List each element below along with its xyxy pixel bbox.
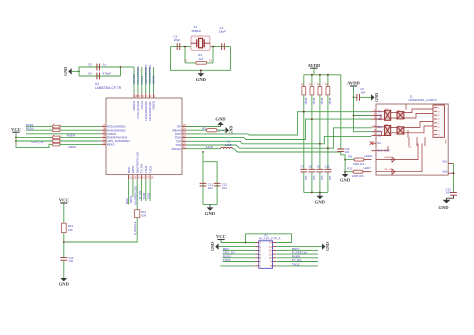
- svg-text:TXD0: TXD0: [223, 258, 231, 262]
- ground P1 right GND: [322, 243, 325, 249]
- svg-text:C5: C5: [88, 63, 92, 67]
- wire U1 top pin LED1/REGOFF: [145, 67, 147, 94]
- wire avdd2 to TCT: [354, 97, 372, 131]
- ground C6 GND: [371, 94, 374, 100]
- wire U1 top pin VDDIO: [153, 67, 155, 94]
- svg-text:TX_EN: TX_EN: [138, 191, 142, 200]
- pin stub U1 left RXD0/MODE0: [102, 129, 107, 131]
- svg-text:MDC: MDC: [125, 198, 129, 204]
- resistor R2: [302, 87, 306, 95]
- svg-text:25MHz: 25MHz: [192, 29, 202, 33]
- pin stub U1 bottom NINT/REFCLKO: [136, 175, 138, 179]
- capacitor C6: [357, 94, 360, 101]
- svg-text:GND: GND: [210, 242, 215, 251]
- wire P1 left CRS_DV: [223, 253, 256, 255]
- junction avdd rail mid3: [327, 74, 329, 76]
- wire ledy to J1: [363, 171, 372, 173]
- wire to VDDCR: [121, 66, 135, 68]
- pin stub P1 right 10: [273, 257, 277, 259]
- wire P1 right gnd: [276, 246, 322, 248]
- wire VCC stem: [16, 132, 53, 147]
- svg-text:R3: R3: [309, 82, 313, 86]
- svg-text:W_2.54_2*7P_A: W_2.54_2*7P_A: [259, 237, 280, 241]
- wire P1 right MDIO: [276, 249, 318, 251]
- svg-text:TXD1: TXD1: [148, 165, 152, 173]
- pin stub U1 top LED1/REGOFF: [145, 94, 147, 98]
- pin stub U1 right RXP: [182, 133, 187, 135]
- resistor R8: [53, 136, 60, 139]
- capacitor C11: [200, 183, 207, 186]
- connector block 8P8C: [433, 105, 445, 137]
- pin stub U1 bottom MDC: [128, 175, 130, 179]
- wire R13 to rc: [64, 218, 137, 242]
- wire 49.9R leg 1 lower: [303, 95, 305, 169]
- wire VDDIO: [26, 133, 102, 135]
- pin stub J1 RCT: [372, 131, 377, 133]
- capacitor C4: [97, 73, 100, 80]
- ground shield GND: [447, 196, 454, 200]
- svg-text:A1V8: A1V8: [206, 145, 214, 149]
- wire U1 top pin LED2/NINTSEL: [149, 67, 151, 94]
- ground EP GND: [220, 125, 222, 127]
- svg-text:49.9R: 49.9R: [312, 98, 316, 105]
- svg-text:10R: 10R: [141, 214, 146, 218]
- pin stub U1 top XTAL1/CLKIN: [137, 94, 139, 98]
- svg-text:NC: NC: [377, 141, 381, 145]
- wire cap1 to bus: [311, 172, 313, 192]
- pin stub J1 RD+: [372, 126, 377, 128]
- svg-text:R5: R5: [325, 82, 329, 86]
- wire crystal main net X1/X2 rail: [171, 46, 231, 48]
- wire gnd stem: [72, 70, 79, 72]
- pin stub U1 bottom TXD0: [145, 175, 147, 179]
- junction c5 top right: [120, 66, 122, 68]
- svg-text:VDD2A: VDD2A: [171, 147, 181, 151]
- wire p1 gnd left: [219, 246, 256, 248]
- wire c5/c4 loop: [79, 66, 121, 68]
- svg-text:104: 104: [222, 186, 227, 190]
- pin stub U1 top VDDCR: [133, 94, 135, 98]
- wire MDC down: [128, 179, 130, 205]
- svg-text:C4: C4: [88, 71, 92, 75]
- svg-text:TX_EN: TX_EN: [292, 258, 302, 262]
- svg-text:GND: GND: [59, 282, 70, 287]
- wire r14 to c14: [63, 233, 65, 258]
- svg-text:49.9R: 49.9R: [320, 98, 324, 105]
- wire xfmr internals: [376, 105, 433, 175]
- svg-text:GND: GND: [205, 211, 216, 216]
- wire RXER to IC: [60, 136, 102, 138]
- wire 49.9R leg 2 upper: [311, 75, 313, 87]
- junction crystal right: [212, 46, 214, 48]
- svg-text:AVDD: AVDD: [347, 81, 360, 86]
- resistor R12 ledy: [345, 171, 353, 173]
- wire P1 right TXD1: [276, 265, 318, 267]
- svg-text:GND: GND: [374, 93, 379, 102]
- pin stub U1 right EP: [182, 126, 187, 128]
- svg-text:49.9R: 49.9R: [328, 98, 332, 105]
- svg-text:TXD0: TXD0: [142, 192, 146, 199]
- pin stub J1 TCT: [372, 115, 377, 117]
- wire RXP: [187, 112, 372, 135]
- wire 49.9R leg 4 lower: [327, 95, 329, 169]
- pin stub P1 right 11: [273, 253, 277, 255]
- svg-text:R11: R11: [348, 154, 353, 158]
- transformer RX secondary: [397, 127, 404, 134]
- wire led column junction: [344, 159, 346, 161]
- svg-text:NRST: NRST: [129, 195, 133, 203]
- wire 49.9R leg 2 lower: [311, 95, 313, 169]
- pin stub U1 top LED2/NINTSEL: [149, 94, 151, 98]
- svg-text:104: 104: [360, 90, 365, 94]
- svg-text:C8: C8: [309, 165, 313, 169]
- junction leg4: [327, 147, 329, 149]
- svg-text:MDIO: MDIO: [107, 143, 115, 147]
- wire U1 top pin VDDCR: [133, 67, 135, 94]
- pin stub U1 left VDDIO: [102, 133, 107, 135]
- wire EP to gnd: [187, 126, 221, 128]
- svg-text:220R ±1%: 220R ±1%: [352, 175, 364, 178]
- wire c11c12 bus: [203, 204, 217, 206]
- wire U1 top pin XTAL1/CLKIN: [137, 67, 139, 94]
- power VCC reset: [60, 202, 67, 204]
- svg-text:C7: C7: [301, 165, 305, 169]
- svg-text:VCC: VCC: [59, 198, 69, 203]
- resistor R9: [207, 129, 218, 132]
- wire TCT branch: [354, 115, 372, 117]
- svg-text:CRS_DV: CRS_DV: [31, 140, 43, 144]
- wire RXER from VCC: [16, 136, 53, 138]
- junction vcc row4: [15, 137, 17, 139]
- capacitor C5: [97, 64, 100, 71]
- pin stub P1 left 6: [255, 261, 259, 263]
- svg-text:R9: R9: [202, 126, 206, 130]
- wire cap0 to bus: [303, 172, 305, 192]
- resistor R5: [326, 87, 330, 95]
- pin stub U1 right TXN: [182, 144, 187, 146]
- junction led2: [344, 171, 346, 173]
- svg-text:470pF: 470pF: [103, 71, 112, 75]
- transformer TX primary: [384, 110, 390, 120]
- junction leg2: [311, 118, 313, 120]
- resistor R10: [53, 140, 60, 143]
- pin J1 SH1: [448, 163, 453, 165]
- capacitor C7: [300, 169, 307, 172]
- capacitor C15: [337, 149, 344, 152]
- wire TXEN down: [141, 179, 143, 201]
- resistor R14: [61, 223, 66, 232]
- wire 49.9R leg 3 upper: [319, 75, 321, 87]
- resistor R1: [185, 62, 213, 64]
- wire P1 right R_REFCLK: [276, 253, 318, 255]
- pin stub U1 bottom NRST: [132, 175, 134, 179]
- svg-text:1u: 1u: [103, 63, 107, 67]
- svg-text:GND: GND: [229, 126, 234, 135]
- svg-text:C10: C10: [325, 165, 330, 169]
- wire 49.9R leg 3 lower: [319, 95, 321, 169]
- pin stub P1 right 12: [273, 249, 277, 251]
- transformer TX secondary: [397, 112, 404, 119]
- pin stub U1 left MDIO: [102, 144, 107, 146]
- junction leg3: [319, 143, 321, 145]
- capacitor C9: [317, 169, 324, 172]
- pin stub P1 left 3: [255, 249, 259, 251]
- ground C11C12 GND: [209, 205, 211, 208]
- junction crystal gnd: [200, 69, 202, 71]
- ground P1 left GND: [215, 243, 218, 249]
- wire c12 branch: [203, 162, 217, 205]
- svg-text:104: 104: [328, 176, 332, 181]
- pin stub P1 left 7: [255, 265, 259, 267]
- junction bus2: [319, 192, 321, 194]
- svg-text:R12: R12: [348, 166, 353, 170]
- pin stub U1 right RXN: [182, 137, 187, 139]
- wire vcc to r14: [63, 203, 65, 223]
- svg-text:18pF: 18pF: [219, 30, 226, 34]
- capacitor C2: [177, 43, 180, 50]
- junction sh2: [453, 172, 455, 174]
- wire vcc to pin1: [221, 240, 255, 243]
- wire c11 branch: [202, 152, 204, 205]
- svg-text:120R: 120R: [225, 143, 232, 147]
- svg-text:104: 104: [345, 150, 350, 154]
- wire ledg to J1: [364, 159, 372, 161]
- wire NRST down: [132, 179, 134, 197]
- capacitor C12: [214, 183, 221, 186]
- svg-text:LEDG: LEDG: [365, 154, 373, 158]
- wire c6 to gnd: [360, 96, 371, 98]
- junction avdd rail mid2: [319, 74, 321, 76]
- pin stub U1 bottom TXD1: [149, 175, 151, 179]
- svg-text:GND: GND: [63, 67, 68, 76]
- ground RBIAS GND: [226, 127, 229, 133]
- wire cap gnd bus: [304, 191, 328, 193]
- op-amp U1 LAN8720A-CP-TR body: [106, 98, 182, 175]
- wire NINT down: [136, 179, 138, 210]
- pin stub U1 top XTAL2: [141, 94, 143, 98]
- svg-text:SH1: SH1: [442, 160, 448, 164]
- wire RBIAS: [187, 129, 207, 131]
- wire P1 left row7: [220, 265, 255, 267]
- pin stub P1 left 4: [255, 253, 259, 255]
- wire TXN: [187, 128, 372, 148]
- wire cap3 to bus: [327, 172, 329, 192]
- junction crystal left: [184, 46, 186, 48]
- svg-text:TXD1: TXD1: [146, 192, 150, 199]
- wire P1 right RXER: [276, 257, 318, 259]
- wire P1 left MDC: [223, 249, 256, 251]
- capacitor C8: [309, 169, 316, 172]
- svg-text:GND: GND: [438, 205, 449, 210]
- svg-text:R2: R2: [301, 82, 305, 86]
- svg-text:R13: R13: [141, 210, 146, 214]
- svg-text:GND: GND: [196, 77, 207, 82]
- ground top-left GND: [68, 68, 71, 74]
- svg-text:C9: C9: [317, 165, 321, 169]
- wire RBIAS to gnd: [217, 129, 226, 131]
- resistor R4: [318, 87, 322, 95]
- wire RXN: [187, 119, 372, 139]
- wire TXP: [187, 136, 372, 143]
- wire RXD1: [26, 126, 53, 128]
- svg-text:104: 104: [312, 176, 316, 181]
- resistor R3: [310, 87, 314, 95]
- junction c5c4 left: [78, 71, 80, 73]
- svg-text:MDIO: MDIO: [69, 145, 77, 149]
- pin stub U1 bottom TX_EN: [141, 175, 143, 179]
- wire avdd2 to c6: [354, 96, 357, 98]
- wire P1 right TX_EN: [276, 261, 318, 263]
- wire aux riser: [341, 152, 345, 172]
- svg-text:104: 104: [208, 186, 213, 190]
- junction vcc row5: [15, 140, 17, 142]
- junction avdd2: [353, 97, 355, 99]
- wire bob smith stubs: [409, 137, 425, 146]
- svg-text:104: 104: [68, 259, 73, 263]
- pin J1 CHS GND: [372, 150, 377, 152]
- pin stub U1 left RXER/PHYAD0: [102, 136, 107, 138]
- power AVDD rail1: [310, 67, 317, 69]
- junction TCT: [353, 115, 355, 117]
- pin stub U1 right TXP: [182, 140, 187, 142]
- wire shield: [453, 164, 455, 193]
- pin stub U1 top VDDIO: [153, 94, 155, 98]
- wire TXD0 down: [145, 179, 147, 201]
- svg-text:LAN8720A-CP-TR: LAN8720A-CP-TR: [95, 86, 122, 90]
- pin stub U1 left CRS_DV/MODE2: [102, 140, 107, 142]
- pin stub U1 right VDD2A: [182, 148, 187, 150]
- junction leg1: [303, 111, 305, 113]
- ground termination GND: [319, 192, 321, 195]
- svg-text:104: 104: [320, 176, 324, 181]
- pin stub P1 right 14: [273, 242, 277, 244]
- wire P1 left RXD0: [223, 257, 256, 259]
- pin stub P1 left 5: [255, 257, 259, 259]
- wire c14 to gnd: [63, 261, 65, 279]
- svg-text:TXD1: TXD1: [292, 262, 300, 266]
- svg-text:8P8C: 8P8C: [446, 138, 448, 144]
- ground LED GND: [344, 172, 346, 174]
- power VCC P1: [217, 239, 224, 241]
- svg-text:1M: 1M: [199, 57, 204, 61]
- wire U1 top pin XTAL2: [141, 67, 143, 94]
- svg-text:X2: X2: [209, 59, 213, 63]
- svg-text:VDDIO: VDDIO: [152, 100, 156, 110]
- crystal X1: [191, 36, 210, 50]
- capacitor C10: [325, 169, 332, 172]
- wire vcc loop to pin14: [246, 234, 292, 243]
- junction reset node: [63, 241, 65, 243]
- svg-text:VCC: VCC: [216, 234, 226, 239]
- capacitor C13: [450, 193, 457, 196]
- wire 49.9R leg 1 upper: [303, 75, 305, 87]
- svg-text:YELLOW: YELLOW: [384, 169, 392, 171]
- pin stub P1 right 8: [273, 265, 277, 267]
- inductor L1: [221, 147, 233, 148]
- svg-text:NINT/REFCLKO: NINT/REFCLKO: [134, 186, 138, 205]
- pin stub P1 right 9: [273, 261, 277, 263]
- wire RXD0: [26, 129, 53, 131]
- pin stub P1 left 2: [255, 246, 259, 248]
- connector J1 HR911105A body: [376, 104, 448, 175]
- wire CRS_DV from VCC: [16, 140, 53, 142]
- svg-text:SH2: SH2: [442, 169, 448, 173]
- wire TXD1 down: [149, 179, 151, 201]
- transformer RX primary: [384, 125, 390, 135]
- resistor R11 ledg: [345, 159, 354, 161]
- pin stub U1 left RXD1/MODE1: [102, 126, 107, 128]
- power VCC left: [12, 131, 19, 133]
- wire VDD2A A1V8: [187, 148, 221, 150]
- svg-text:RXER: RXER: [67, 134, 76, 138]
- resistor R13: [135, 210, 140, 218]
- capacitor C14: [60, 258, 67, 261]
- svg-text:HR911105A_C12074: HR911105A_C12074: [409, 98, 437, 102]
- wire avdd rail: [304, 75, 341, 149]
- connector P1 body: [259, 241, 273, 268]
- svg-text:AVDD: AVDD: [308, 63, 321, 68]
- svg-text:R4: R4: [317, 82, 321, 86]
- svg-text:104: 104: [304, 176, 308, 181]
- pin stub J1 TD+: [372, 111, 377, 113]
- ground crystal GND: [200, 70, 202, 73]
- svg-text:10K: 10K: [68, 228, 73, 232]
- svg-text:LEDY: LEDY: [364, 166, 371, 170]
- svg-text:GREEN: GREEN: [384, 157, 392, 159]
- ground reset GND: [60, 278, 67, 281]
- wire MDIO to IC: [60, 144, 102, 146]
- junction avdd rail mid1: [311, 74, 313, 76]
- pin stub J1 TD-: [372, 118, 377, 120]
- capacitor C1: [222, 43, 225, 50]
- resistor R6: [53, 125, 60, 128]
- wire cap2 to bus: [319, 172, 321, 192]
- wire RXD0 to IC: [60, 129, 102, 131]
- svg-text:R_REFCLK: R_REFCLK: [133, 221, 137, 235]
- svg-text:18pF: 18pF: [174, 38, 181, 42]
- svg-text:GND: GND: [340, 178, 351, 183]
- svg-text:VCC: VCC: [11, 127, 21, 132]
- wire avdd2 stem: [353, 86, 355, 97]
- resistor R11s: [53, 143, 60, 146]
- svg-text:X1: X1: [184, 59, 188, 63]
- junction bus1: [311, 192, 313, 194]
- pin stub P1 left 1: [255, 242, 259, 244]
- junction vcc p1: [245, 242, 247, 244]
- svg-text:GND: GND: [215, 116, 226, 121]
- power AVDD2: [350, 85, 357, 87]
- pin J1 SH2: [448, 172, 453, 174]
- svg-text:GND: GND: [315, 199, 326, 204]
- junction A1V8 c11 tap: [202, 151, 204, 153]
- svg-text:VDDIO: VDDIO: [152, 75, 156, 85]
- resistor R7: [53, 129, 60, 132]
- wire A1V8 after L1: [232, 149, 340, 152]
- pin J1 NC: [372, 142, 377, 144]
- svg-text:104: 104: [446, 191, 451, 195]
- svg-text:GND: GND: [325, 242, 330, 251]
- pin stub P1 right 13: [273, 246, 277, 248]
- wire RXD1 to IC: [60, 126, 102, 128]
- wire P1 left TXD0: [223, 261, 256, 263]
- wire 49.9R leg 4 upper: [327, 75, 329, 87]
- pin stub U1 right RBIAS: [182, 129, 187, 131]
- wire CRS_DV to IC: [60, 140, 102, 142]
- pin stub J1 RD-: [372, 135, 377, 137]
- svg-text:49.9R: 49.9R: [304, 98, 308, 105]
- wire avdd stem: [313, 68, 315, 75]
- wire crystal outer loop left: [171, 47, 231, 71]
